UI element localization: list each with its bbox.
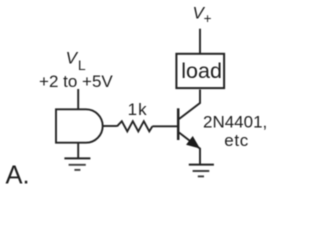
svg-text:L: L (78, 57, 86, 73)
svg-text:load: load (181, 59, 222, 83)
svg-text:+2 to +5V: +2 to +5V (39, 72, 113, 91)
svg-text:+: + (204, 11, 212, 26)
svg-text:V: V (66, 49, 79, 68)
svg-text:A.: A. (6, 162, 30, 190)
svg-text:etc: etc (224, 131, 249, 150)
svg-text:2N4401,: 2N4401, (203, 113, 267, 132)
svg-text:1k: 1k (128, 100, 148, 119)
